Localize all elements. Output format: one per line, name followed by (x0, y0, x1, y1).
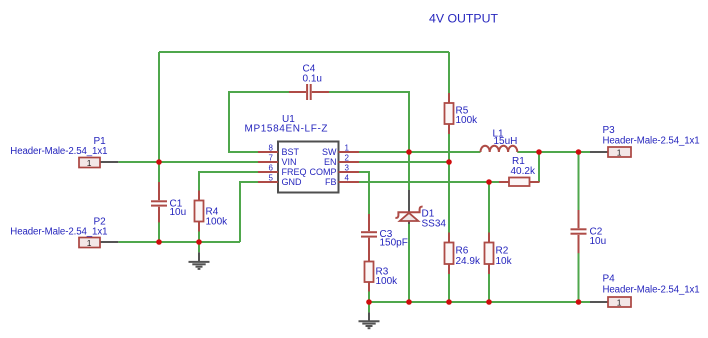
diode D1 SS34 (395, 190, 446, 230)
node P2/C1 junction (156, 239, 162, 245)
node FB/R1/R2 junction (486, 179, 492, 185)
pin 8 BST (258, 143, 300, 157)
wire BST loop (229, 92, 289, 152)
svg-text:SS34: SS34 (422, 219, 447, 230)
svg-text:P3: P3 (603, 125, 616, 136)
svg-text:Header-Male-2.54_1x1: Header-Male-2.54_1x1 (603, 136, 700, 147)
svg-text:15uH: 15uH (494, 136, 518, 147)
wire GND pin riser (240, 182, 258, 242)
wire output column top (578, 152, 580, 210)
node rail/C2/P4 junction (576, 299, 582, 305)
resistor R1 40.2k (499, 156, 540, 186)
resistor R3 100k (365, 252, 399, 292)
node rail/R2 junction (486, 299, 492, 305)
svg-text:100k: 100k (206, 217, 229, 228)
wire SW node to D1 (408, 152, 410, 190)
svg-text:40.2k: 40.2k (511, 166, 536, 177)
wire FREQ to R4 (199, 172, 258, 191)
resistor R4 100k (195, 191, 229, 232)
node L1/R1 junction (536, 149, 542, 155)
svg-text:SW: SW (322, 147, 337, 157)
wire D1 anode to rail (408, 224, 410, 302)
wire R4 bottom (198, 231, 200, 242)
svg-text:100k: 100k (376, 276, 399, 287)
wire R2 bottom to rail (488, 274, 490, 302)
pin 4 FB (325, 173, 359, 187)
wire EN row (359, 161, 449, 163)
node rail/R6 junction (446, 299, 452, 305)
node P1/VIN junction (156, 159, 162, 165)
ground 1 (189, 252, 210, 269)
node SW/D1 junction (406, 149, 412, 155)
svg-text:VIN: VIN (282, 157, 297, 167)
node EN/R5/R6 junction (446, 159, 452, 165)
wire COMP to C3 (359, 172, 369, 214)
capacitor C1 10u (151, 182, 186, 222)
connector P3 (590, 125, 700, 157)
svg-text:4V OUTPUT: 4V OUTPUT (429, 12, 498, 26)
svg-text:1: 1 (87, 158, 92, 168)
svg-text:100k: 100k (456, 115, 479, 126)
svg-text:10u: 10u (170, 207, 187, 218)
capacitor C3 150pF (361, 214, 408, 252)
svg-text:1: 1 (87, 238, 92, 248)
wire R6 bottom to rail (448, 274, 450, 302)
svg-text:10k: 10k (496, 256, 513, 267)
wire FB row (359, 181, 499, 183)
capacitor C2 10u (571, 210, 607, 253)
wire output column bottom (578, 253, 580, 302)
svg-text:Header-Male-2.54_1x1: Header-Male-2.54_1x1 (603, 285, 700, 296)
capacitor C4 0.1u (289, 63, 329, 100)
svg-text:3: 3 (345, 163, 350, 172)
wire EN node to R6 (448, 162, 450, 233)
svg-text:7: 7 (269, 153, 274, 162)
pin 2 EN (324, 153, 359, 167)
pin 7 VIN (258, 153, 297, 167)
svg-text:24.9k: 24.9k (456, 256, 481, 267)
wire P2 row (118, 241, 240, 243)
connector P2 (10, 217, 118, 248)
svg-text:6: 6 (269, 163, 274, 172)
wire ground stub 1 (198, 242, 200, 252)
svg-text:Header-Male-2.54_1x1: Header-Male-2.54_1x1 (10, 146, 107, 157)
connector P1 (10, 136, 118, 168)
svg-text:BST: BST (282, 147, 300, 157)
svg-text:8: 8 (269, 143, 274, 152)
wire R5 bottom to EN node (448, 134, 450, 162)
wire R1 right riser (538, 152, 540, 182)
node output/C2/P3 junction (576, 149, 582, 155)
svg-text:150pF: 150pF (380, 238, 408, 249)
svg-text:Header-Male-2.54_1x1: Header-Male-2.54_1x1 (10, 227, 107, 238)
svg-text:2: 2 (345, 153, 350, 162)
node rail/D1 junction (406, 299, 412, 305)
op-amp U1 MP1584EN-LF-Z body (245, 114, 339, 193)
svg-text:FB: FB (325, 177, 337, 187)
wire P1 to VIN (118, 161, 258, 163)
pin 1 SW (322, 143, 359, 157)
svg-text:1: 1 (345, 143, 350, 152)
svg-text:1: 1 (617, 297, 622, 307)
svg-text:MP1584EN-LF-Z: MP1584EN-LF-Z (245, 124, 329, 135)
wire top rail (159, 51, 449, 53)
ground 2 (359, 312, 380, 328)
resistor R5 100k (445, 93, 479, 134)
svg-text:5: 5 (269, 173, 274, 182)
node R4/ground junction (196, 239, 202, 245)
wire SW row (359, 151, 481, 153)
wire C1 top segment (158, 162, 160, 183)
wire C4 to SW node (329, 92, 409, 152)
inductor L1 15uH (481, 129, 518, 152)
svg-text:FREQ: FREQ (282, 167, 307, 177)
svg-text:COMP: COMP (310, 167, 337, 177)
wire left drop to P1 node (158, 52, 160, 162)
node rail/R3 junction (366, 299, 372, 305)
wire R5 top drop (448, 52, 450, 93)
svg-text:P4: P4 (603, 274, 616, 285)
svg-text:R2: R2 (496, 246, 509, 257)
wire FB node to R2 (488, 182, 490, 233)
svg-text:EN: EN (324, 157, 337, 167)
svg-text:GND: GND (282, 177, 303, 187)
svg-text:R6: R6 (456, 246, 469, 257)
wire C1 bottom segment (158, 222, 160, 242)
pin 3 COMP (310, 163, 360, 177)
svg-text:0.1u: 0.1u (303, 74, 322, 85)
pin 6 FREQ (258, 163, 307, 177)
wire bottom rail (369, 301, 590, 303)
wire ground stub 2 (368, 302, 370, 312)
pin 5 GND (258, 173, 302, 187)
svg-text:10u: 10u (590, 236, 607, 247)
svg-text:4: 4 (345, 173, 350, 182)
svg-text:1: 1 (617, 147, 622, 157)
resistor R2 10k (485, 233, 513, 275)
wire R3 bottom to rail (368, 292, 370, 303)
connector P4 (590, 274, 700, 308)
resistor R6 24.9k (445, 233, 481, 275)
wire L1 out to P3 (517, 151, 590, 153)
